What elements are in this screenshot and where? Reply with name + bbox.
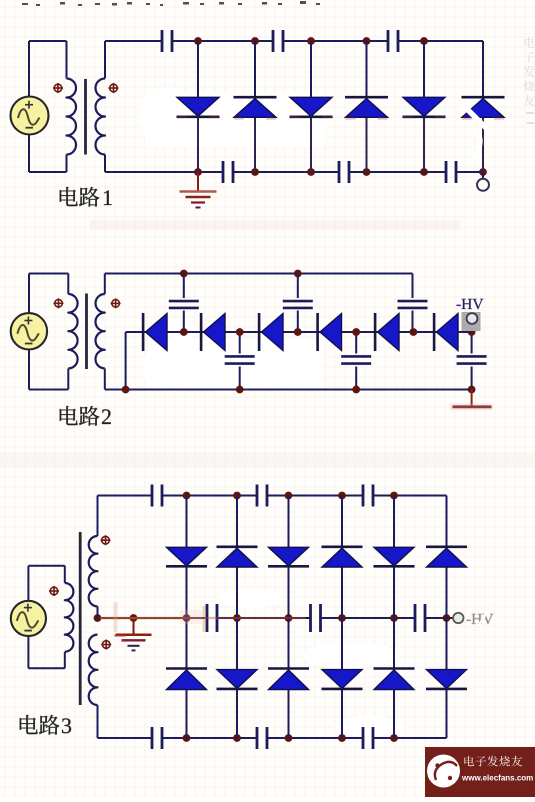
svg-text:www.elecfans.com: www.elecfans.com <box>461 774 533 783</box>
